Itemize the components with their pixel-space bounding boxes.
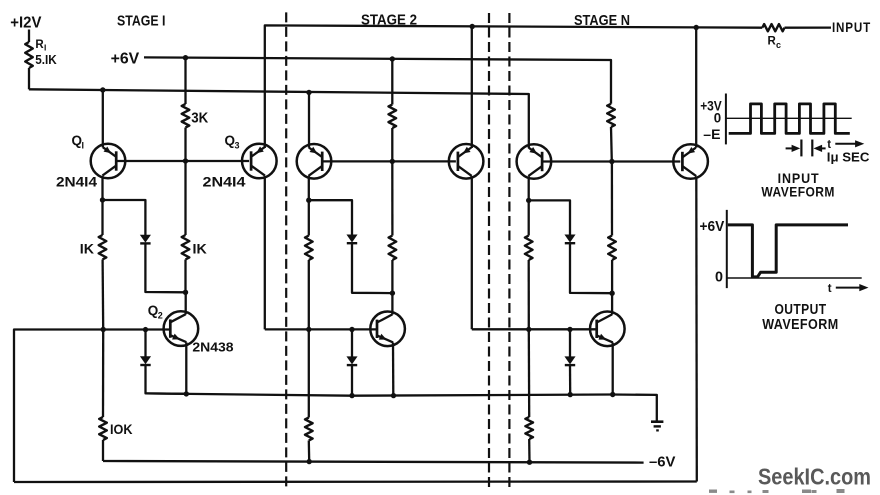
wire 3K stage1 leads bbox=[184, 58, 186, 104]
svg-text:0: 0 bbox=[714, 111, 721, 126]
wire stage2 CR2 leads bbox=[351, 330, 353, 357]
svg-text:SeekIC.com: SeekIC.com bbox=[758, 463, 871, 489]
node stage2 Q2 emitter junction bbox=[391, 393, 396, 398]
node stage1 base node bbox=[183, 158, 188, 163]
resistor 10K stageN bbox=[525, 417, 533, 439]
svg-text:OUTPUT: OUTPUT bbox=[775, 302, 827, 318]
wire stage2 left collector bbox=[308, 176, 310, 200]
svg-text:0: 0 bbox=[715, 270, 723, 286]
node Q1 collector junction bbox=[100, 197, 105, 202]
transistor Q2 stage2 bbox=[370, 312, 405, 347]
node stageN input junction bbox=[694, 25, 699, 30]
output waveform trace bbox=[728, 225, 848, 277]
transistor Q3 bbox=[242, 144, 277, 179]
wire 10K leads bbox=[102, 330, 104, 418]
svg-text:IOK: IOK bbox=[110, 421, 133, 437]
resistor 3K stage2 bbox=[389, 105, 397, 129]
wire stage2 base line bbox=[322, 160, 456, 162]
node Q2 collector node bbox=[183, 290, 188, 295]
wire 3K stage2 leads bbox=[391, 59, 393, 105]
node stage2 Q2 collector node bbox=[390, 290, 395, 295]
node stageN Q2 collector node bbox=[609, 291, 614, 296]
svg-text:IK: IK bbox=[80, 241, 94, 256]
svg-text:Q: Q bbox=[225, 133, 236, 148]
wire -6V line bbox=[103, 461, 644, 463]
node stage2 emitter junction bbox=[306, 90, 311, 95]
svg-text:Q: Q bbox=[72, 133, 83, 148]
transistor Q3 stage2 bbox=[449, 144, 484, 179]
svg-text:STAGE I: STAGE I bbox=[117, 12, 166, 29]
svg-text:Q: Q bbox=[148, 303, 159, 318]
wire 1K right leads bbox=[184, 161, 186, 235]
wire stageN CR2 leads bbox=[569, 329, 571, 357]
diode CR1 stageN bbox=[565, 235, 574, 242]
wire stageN left collector bbox=[528, 176, 530, 200]
wire stageN collector elbow bbox=[529, 200, 570, 235]
wire stage2 Q2 base line bbox=[265, 328, 377, 330]
node stage2 CR2 junction bbox=[349, 393, 354, 398]
wire input rail to Rc bbox=[696, 26, 762, 29]
svg-text:3K: 3K bbox=[191, 110, 208, 126]
wire stageN Q2 emitter bbox=[612, 343, 614, 395]
diode CR2 stage1 bbox=[141, 357, 150, 364]
node Q2 base diode junction bbox=[143, 327, 148, 332]
wire stage1-2 boundary dash bbox=[285, 12, 287, 489]
wire 3K-N to base node bbox=[610, 127, 613, 162]
svg-text:WAVEFORM: WAVEFORM bbox=[761, 185, 835, 200]
wire stage2 10K leads bbox=[308, 329, 310, 417]
resistor 1K stage1 left bbox=[99, 235, 107, 260]
transistor Q2 bbox=[164, 311, 199, 346]
node stage2 input junction bbox=[470, 24, 475, 29]
wire stage2-N boundary dash left bbox=[488, 13, 490, 490]
label cut-off caption fragments bbox=[709, 490, 717, 493]
wire stageN Q2 base line bbox=[472, 328, 597, 330]
wire CR2 leads bbox=[144, 330, 146, 357]
svg-text:INPUT: INPUT bbox=[832, 19, 871, 35]
node Q2 base 1K junction bbox=[101, 327, 106, 332]
wire stage2-N boundary dash right bbox=[508, 13, 510, 490]
resistor 3K stage1 bbox=[182, 104, 190, 128]
output waveform axis bbox=[726, 210, 728, 288]
svg-text:I: I bbox=[44, 43, 46, 53]
svg-text:2N4I4: 2N4I4 bbox=[203, 174, 246, 190]
svg-text:2: 2 bbox=[158, 311, 163, 321]
resistor Rc bbox=[762, 24, 784, 31]
resistor 3K stage N bbox=[607, 104, 615, 127]
resistor 10K stage1 bbox=[99, 417, 107, 440]
wire input rail bbox=[265, 25, 696, 148]
svg-text:2N438: 2N438 bbox=[192, 341, 233, 355]
wire Q3 collector bbox=[264, 176, 266, 330]
wire stageN 1K left leads bbox=[528, 200, 530, 235]
svg-text:I: I bbox=[82, 141, 85, 151]
svg-text:t: t bbox=[828, 283, 832, 295]
svg-text:3: 3 bbox=[235, 141, 240, 151]
transistor Q1 stageN bbox=[517, 144, 552, 179]
transistor Q2 stageN bbox=[590, 312, 625, 347]
svg-text:–6V: –6V bbox=[649, 454, 676, 470]
ground bbox=[651, 420, 663, 423]
wire +12V to R1 bbox=[28, 30, 30, 43]
node 3K stage2 junction bbox=[390, 56, 395, 61]
wire Rc to INPUT bbox=[785, 26, 832, 28]
marker arrow right bbox=[786, 147, 795, 149]
wire stage2 CR1 to bar node bbox=[352, 243, 392, 293]
input time axis arrow bbox=[835, 143, 857, 145]
wire stage2 1K left leads bbox=[308, 200, 310, 235]
resistor 1K stage2 right bbox=[389, 236, 397, 261]
wire 1K left leads bbox=[101, 200, 103, 235]
wire CR1 to collector bar node bbox=[145, 243, 185, 292]
node Q1 emitter junction bbox=[100, 87, 105, 92]
marker arrow left bbox=[816, 147, 826, 149]
diode CR2 stage2 bbox=[347, 357, 356, 364]
input waveform trace bbox=[729, 104, 850, 133]
wire stageN Q2 collector bbox=[611, 293, 613, 314]
transistor Q1 bbox=[91, 144, 126, 179]
wire feedback rail bbox=[14, 480, 697, 483]
svg-text:+6V: +6V bbox=[111, 51, 140, 68]
node stageN Q2 base diode junction bbox=[567, 327, 572, 332]
resistor 1K stageN right bbox=[608, 236, 616, 261]
wire stage2 Q2 collector bbox=[391, 293, 393, 315]
svg-text:–E: –E bbox=[703, 127, 720, 142]
wire +12V rail bbox=[29, 89, 529, 148]
wire stage1 collector elbow bbox=[103, 200, 146, 235]
resistor 1K stageN left bbox=[525, 236, 533, 261]
input waveform axis bbox=[725, 94, 727, 145]
svg-text:c: c bbox=[776, 40, 781, 50]
wire stage2 right collector bbox=[471, 176, 473, 329]
wire Q2 base line bbox=[14, 330, 170, 483]
node stage2 Q2 base 1K junction bbox=[306, 327, 311, 332]
svg-text:2N4I4: 2N4I4 bbox=[56, 174, 97, 190]
diode CR2 stageN bbox=[565, 357, 574, 364]
node stageN CR2 junction bbox=[568, 392, 573, 397]
diode CR1 stage1 bbox=[141, 235, 150, 242]
svg-text:+6V: +6V bbox=[700, 218, 725, 235]
resistor R1 bbox=[25, 42, 33, 68]
wire Q1 collector bbox=[101, 176, 103, 200]
input pulse width markers bbox=[800, 140, 802, 157]
wire stage2 Q2 emitter bbox=[392, 343, 395, 396]
svg-text:5.IK: 5.IK bbox=[35, 53, 57, 67]
wire stageN output collector bbox=[695, 176, 698, 481]
node stage2 base node bbox=[390, 159, 395, 164]
node stageN Q2 emitter junction bbox=[610, 392, 615, 397]
wire +6V line bbox=[144, 57, 611, 103]
wire Q1 base line bbox=[116, 160, 249, 162]
node stageN base node bbox=[609, 159, 614, 164]
svg-text:WAVEFORM: WAVEFORM bbox=[762, 317, 838, 333]
node stage2 -6V junction bbox=[307, 459, 312, 464]
svg-text:+I2V: +I2V bbox=[10, 14, 42, 31]
wire stage2 1K right leads bbox=[391, 161, 393, 235]
wire emitter rail bbox=[146, 393, 657, 421]
wire stage2 emitter to input rail bbox=[471, 27, 473, 149]
wire R1 to +12V rail bbox=[28, 68, 30, 89]
transistor Q3 stageN bbox=[673, 144, 708, 179]
node stage2 Q2 base diode junction bbox=[349, 327, 354, 332]
wire stageN CR1 to bar node bbox=[570, 243, 612, 293]
wire Q2 collector bbox=[185, 292, 187, 314]
resistor 10K stage2 bbox=[305, 418, 313, 441]
wire stageN 10K leads bbox=[528, 329, 531, 417]
wire stageN 1K right leads bbox=[611, 162, 613, 236]
node stageN -6V junction bbox=[527, 460, 532, 465]
node stage2 collector junction bbox=[306, 198, 311, 203]
node stageN collector junction bbox=[526, 198, 531, 203]
output time axis arrow bbox=[836, 287, 862, 289]
wire Q2 emitter bbox=[185, 342, 187, 394]
diode CR1 stage2 bbox=[347, 235, 356, 242]
node stageN Q2 base 1K junction bbox=[526, 327, 531, 332]
wire stageN base line bbox=[542, 160, 680, 162]
resistor 1K stage1 right bbox=[182, 235, 190, 260]
node 3K stage1 junction bbox=[183, 55, 188, 60]
svg-text:Iμ SEC: Iμ SEC bbox=[827, 149, 870, 164]
wire rail to stage2 emitter bbox=[308, 92, 310, 147]
transistor Q1 stage2 bbox=[297, 144, 332, 179]
node Q2 emitter junction bbox=[184, 391, 189, 396]
resistor 1K stage2 left bbox=[305, 236, 313, 261]
wire rail to Q1 emitter bbox=[102, 90, 104, 147]
svg-text:IK: IK bbox=[193, 241, 207, 256]
wire stage2 collector elbow bbox=[309, 200, 352, 235]
